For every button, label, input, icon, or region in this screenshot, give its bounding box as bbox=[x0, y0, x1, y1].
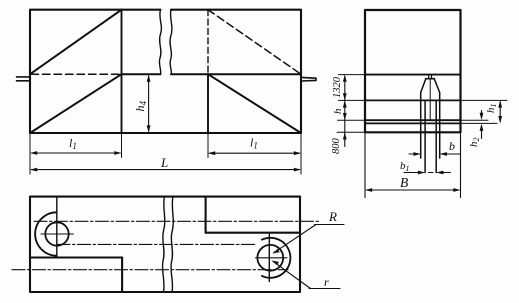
rail web inner sides bbox=[425, 100, 436, 172]
dimension h1 bbox=[498, 100, 502, 123]
dimension h4 bbox=[147, 75, 151, 133]
plan center line lower bbox=[12, 269, 288, 271]
rail nub bbox=[429, 75, 432, 79]
dimension b1 bbox=[404, 171, 451, 175]
plan step line horizontal bbox=[30, 256, 122, 258]
mid line dashed left bbox=[31, 73, 122, 75]
right extension lines of section bbox=[461, 100, 508, 123]
diagonal right lower bbox=[208, 74, 301, 133]
svg-text:l1: l1 bbox=[69, 136, 77, 151]
section line top of web bbox=[365, 74, 461, 76]
left dimension line 1320 / h / 800 bbox=[343, 75, 347, 147]
right tab bbox=[301, 77, 316, 81]
rail center line bbox=[429, 80, 431, 120]
mid line solid bbox=[122, 73, 302, 75]
svg-text:В: В bbox=[400, 175, 408, 190]
stiffener vertical right solid lower bbox=[207, 74, 209, 133]
svg-text:h: h bbox=[332, 108, 344, 114]
dimension b bbox=[409, 152, 461, 156]
leader r bbox=[272, 261, 341, 289]
cross-section outline bbox=[365, 10, 461, 132]
svg-text:800: 800 bbox=[331, 138, 342, 155]
section flange plate upper line bbox=[365, 119, 461, 121]
plan notch vertical bbox=[205, 197, 207, 233]
rail outer sides bbox=[421, 93, 440, 159]
plan step line vertical bbox=[121, 258, 123, 293]
plan notch horizontal bbox=[206, 232, 300, 234]
svg-text:h1: h1 bbox=[485, 104, 498, 114]
svg-text:b: b bbox=[449, 139, 455, 153]
svg-text:l1: l1 bbox=[250, 136, 258, 151]
svg-text:h4: h4 bbox=[133, 101, 148, 112]
dimension l1 left bbox=[30, 151, 122, 155]
svg-text:R: R bbox=[328, 209, 337, 224]
stiffener vertical left bbox=[121, 10, 123, 133]
plan break wavy line left bbox=[162, 197, 164, 292]
break wavy line left bbox=[159, 10, 161, 75]
label l1 left bbox=[69, 136, 77, 151]
plan right hole center line horizontal bbox=[256, 257, 288, 259]
plan center line upper bbox=[34, 220, 320, 222]
left tab bbox=[17, 77, 30, 81]
svg-text:L: L bbox=[160, 155, 168, 170]
extension lines below elevation bbox=[30, 134, 301, 174]
beam elevation outline bbox=[30, 10, 301, 133]
plan left hole circle bbox=[45, 222, 68, 245]
svg-text:r: r bbox=[324, 275, 329, 289]
extension lines below section bbox=[365, 134, 461, 198]
diagonal right upper dashed bbox=[208, 10, 301, 75]
plan left hole center line bbox=[41, 233, 74, 235]
dimension B bbox=[365, 188, 461, 192]
plan right hole circle bbox=[257, 245, 283, 271]
leader R bbox=[272, 225, 344, 254]
section flange plate lower line bbox=[365, 122, 461, 124]
plan right hole arc bbox=[262, 238, 291, 278]
svg-text:b1: b1 bbox=[400, 160, 410, 173]
dimension l1 right bbox=[208, 151, 301, 155]
plan left hole arc bbox=[35, 212, 57, 255]
diagonal left upper bbox=[30, 10, 122, 75]
section line h top bbox=[365, 99, 461, 101]
dimension h2 bbox=[480, 111, 484, 139]
left extension lines of section bbox=[337, 75, 365, 133]
svg-text:h2: h2 bbox=[468, 138, 481, 148]
rail cap bbox=[426, 78, 434, 80]
diagonal left lower bbox=[30, 74, 122, 133]
break wavy line right bbox=[170, 10, 172, 75]
plan break wavy line right bbox=[171, 197, 173, 292]
stiffener vertical right dashed upper bbox=[207, 10, 209, 75]
plan left hole vertical line bbox=[56, 198, 58, 256]
plan right hole center line vertical bbox=[268, 234, 270, 282]
svg-text:1320: 1320 bbox=[332, 76, 343, 98]
plan center line middle bbox=[57, 243, 256, 245]
plan view outline bbox=[30, 197, 300, 292]
rail shoulders bbox=[421, 79, 440, 93]
dimension L bbox=[30, 168, 301, 172]
